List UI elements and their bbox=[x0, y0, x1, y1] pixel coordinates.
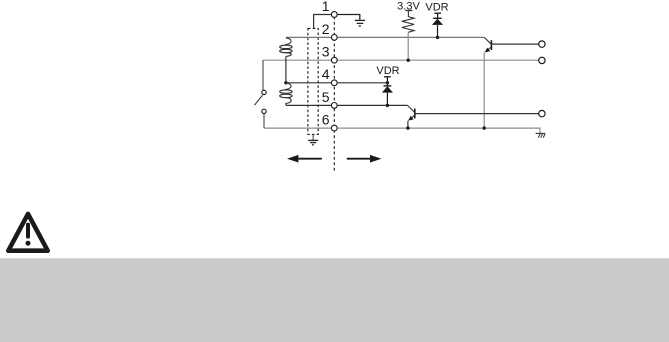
arrow right bbox=[347, 155, 382, 163]
terminal circle T2 bbox=[539, 57, 545, 63]
wire row6 (pin6 line) bbox=[264, 128, 540, 133]
wire row3 (pin3 line) bbox=[263, 59, 539, 61]
svg-text:4: 4 bbox=[322, 66, 330, 82]
pin 5 circle bbox=[331, 103, 337, 109]
wire pin1 right to ground bbox=[337, 15, 360, 20]
VDR D1 (upper) bbox=[432, 13, 443, 37]
svg-text:2: 2 bbox=[322, 21, 330, 37]
shield dashed box bbox=[308, 28, 318, 134]
supply tick 3.3V bbox=[405, 10, 412, 12]
wire Q2 collector bbox=[415, 113, 539, 115]
pin 4 circle bbox=[331, 80, 337, 86]
terminal circle T1 bbox=[539, 41, 545, 47]
switch S1 bbox=[254, 90, 266, 113]
VDR D2 (middle) bbox=[382, 77, 393, 106]
wire Q1 collector bbox=[491, 43, 538, 45]
node dot Q1 emitter/row6 bbox=[483, 126, 486, 129]
svg-text:VDR: VDR bbox=[376, 65, 399, 77]
warning triangle icon bbox=[8, 214, 47, 251]
wire Q2 emitter drop to row6 bbox=[407, 121, 409, 128]
transistor Q2 (lower) bbox=[408, 105, 415, 120]
footer gray bar bbox=[0, 258, 669, 342]
wire row2 (pin2 line) bbox=[286, 36, 484, 38]
wire row5 (pin5 line) bbox=[286, 104, 408, 106]
wire switch bottom drop bbox=[263, 114, 265, 129]
pin 1 circle bbox=[331, 12, 337, 18]
wire resistor to row3 bbox=[407, 32, 409, 60]
svg-text:6: 6 bbox=[322, 112, 330, 128]
earth ground G2 (shield) bbox=[308, 140, 318, 145]
wire Q1 emitter drop to row6 bbox=[483, 52, 485, 128]
node dot D1/row2 bbox=[436, 36, 439, 39]
connector dashed center line bbox=[333, 17, 335, 172]
node dot D2/row4 bbox=[386, 81, 389, 84]
svg-text:3: 3 bbox=[322, 44, 330, 60]
node dot D2/row5 bbox=[386, 104, 389, 107]
transistor Q1 (upper) bbox=[484, 37, 491, 52]
wire pin1 left + shield drop bbox=[314, 15, 332, 29]
node dot tap/row4 bbox=[284, 81, 287, 84]
wire row3 left drop to switch bbox=[262, 60, 264, 90]
svg-text:1: 1 bbox=[322, 0, 330, 14]
pin 6 circle bbox=[331, 125, 337, 131]
transformer winding L1 (upper) bbox=[280, 38, 292, 57]
wire shield box to ground bbox=[312, 134, 314, 140]
pin 3 circle bbox=[331, 57, 337, 63]
pin 2 circle bbox=[331, 35, 337, 41]
resistor R1 bbox=[402, 11, 414, 33]
node dot resistor/row3 bbox=[407, 59, 410, 62]
svg-text:VDR: VDR bbox=[425, 2, 448, 14]
node dot Q2 emitter/row6 bbox=[406, 126, 409, 129]
earth ground G1 (pin1) bbox=[355, 20, 365, 26]
terminal circle T3 bbox=[539, 110, 545, 116]
transformer winding L2 (lower) bbox=[280, 83, 292, 105]
wire winding center tap bbox=[285, 56, 287, 82]
arrow left bbox=[287, 155, 322, 163]
chassis ground right bbox=[536, 133, 546, 137]
wire row4 (pin4 line to VDR D2) bbox=[286, 82, 388, 84]
svg-text:5: 5 bbox=[322, 89, 330, 105]
